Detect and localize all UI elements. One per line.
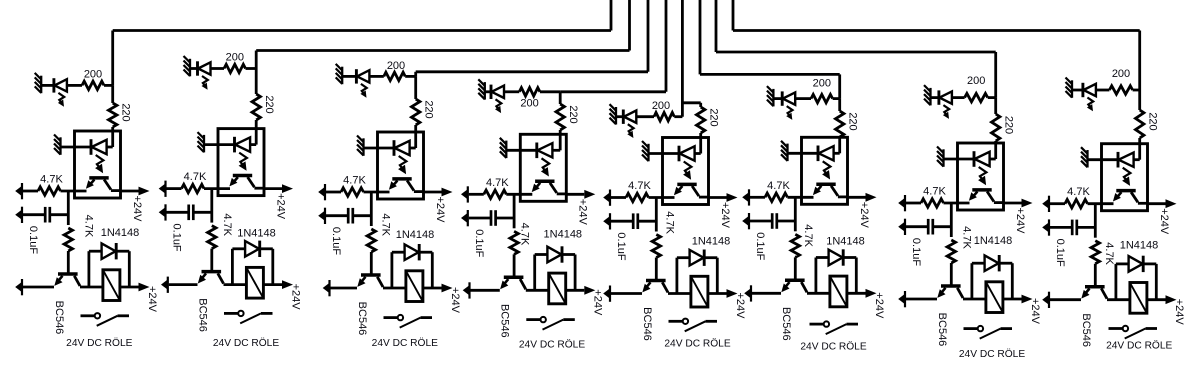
opto emitter arrow ch6 — [813, 187, 821, 196]
wire: node ch5 — [655, 198, 658, 232]
LED ch1 — [52, 78, 55, 92]
collector wire Q6 — [801, 282, 807, 292]
wire: diode loop right ch1 — [117, 250, 129, 253]
wire ch8 — [1077, 226, 1096, 229]
opto LED ch8 — [1117, 152, 1120, 168]
opto phototransistor ch2 — [233, 174, 252, 178]
relay contact switch ch8 — [1109, 327, 1123, 330]
wire: +24V ch3 row3 — [423, 287, 442, 290]
resistor 200 ch8 — [1109, 86, 1132, 94]
diode 1N4148 D6 — [829, 250, 843, 266]
+24V arrow ch6 row3 — [866, 289, 877, 298]
terminal ch5 row1 — [609, 190, 611, 206]
wire: +24V ch3 row1 — [424, 191, 442, 194]
transistor BC546 Q7 — [941, 284, 961, 288]
wire ch5 — [674, 115, 682, 118]
relay contact switch ch4 — [526, 318, 540, 321]
+24V arrow ch2 row3 — [282, 280, 293, 289]
diode 1N4148 D5 — [690, 250, 704, 266]
wire: bus drop ch8 — [1138, 31, 1141, 91]
wire ch4 — [540, 90, 560, 93]
light arrow ch3 — [361, 84, 367, 94]
relay coil K7 — [986, 282, 1003, 313]
svg-text:BC546: BC546 — [356, 302, 368, 336]
wire: bus horizontal ch8 — [733, 29, 1140, 32]
svg-text:+24V: +24V — [577, 199, 589, 226]
optocoupler U5 — [663, 138, 709, 205]
wire ch7 — [933, 225, 952, 228]
resistor 4.7K ch6 — [765, 193, 788, 201]
emitter arrow Q2 — [198, 275, 206, 284]
opto LED ch5 — [678, 146, 681, 162]
svg-text:4.7K: 4.7K — [961, 226, 973, 249]
chassis ground (opto) ch2 — [203, 135, 205, 153]
wire ch7 — [906, 298, 937, 301]
wire ch6 — [750, 220, 772, 223]
resistor 220 ch7 — [992, 114, 1000, 141]
capacitor 0.1uF ch5 — [632, 213, 635, 229]
svg-text:+24V: +24V — [1029, 298, 1041, 325]
terminal ch6 row2 — [748, 213, 750, 229]
wire: node ch6 — [794, 197, 797, 231]
wire: +24V ch2 row1 — [264, 187, 282, 190]
relay coil K2 — [246, 267, 263, 298]
opto phototransistor ch4 — [535, 179, 554, 183]
wire: bus horizontal ch6 — [700, 73, 840, 76]
wire ch3 — [326, 214, 348, 217]
wire ch6 — [773, 97, 782, 100]
resistor 4.7K base ch5 — [652, 235, 660, 258]
terminal ch5 row2 — [609, 213, 611, 229]
wire: bus stub ch4 — [665, 0, 668, 92]
wire ch4 — [559, 92, 562, 104]
relay contact switch ch1 — [81, 314, 95, 317]
wire ch4 — [559, 130, 562, 150]
resistor 4.7K ch3 — [341, 188, 364, 196]
opto emitter arrow ch7 — [969, 192, 977, 201]
wire: +24V ch6 row1 — [848, 196, 866, 199]
+24V arrow ch3 row1 — [442, 188, 453, 197]
optocoupler U4 — [520, 134, 566, 201]
opto light arrow ch6 — [823, 161, 831, 174]
wire: diode loop left ch4 — [533, 255, 536, 291]
wire ch8 — [1138, 138, 1141, 160]
terminal ch6 row1 — [748, 189, 750, 205]
opto collector wire ch2 — [248, 177, 255, 187]
opto phototransistor ch8 — [1116, 189, 1135, 193]
wire ch3 — [414, 76, 417, 99]
wire ch5 — [649, 196, 675, 199]
svg-text:4.7K: 4.7K — [221, 213, 233, 236]
opto collector wire ch6 — [831, 186, 838, 196]
svg-text:24V DC RÖLE: 24V DC RÖLE — [959, 348, 1025, 360]
wire ch4 — [471, 289, 500, 292]
terminal ch3 row1 — [324, 184, 326, 200]
wire ch2 — [169, 283, 198, 286]
emitter arrow Q8 — [1081, 290, 1089, 299]
chassis ground (LED) ch1 — [40, 76, 42, 94]
svg-text:+24V: +24V — [131, 196, 143, 223]
terminal ch7 row3 — [904, 291, 906, 307]
wire: node ch8 — [1094, 204, 1097, 238]
wire: +24V ch7 row1 — [1004, 202, 1022, 205]
LED ch2 — [196, 61, 199, 75]
optocoupler U8 — [1102, 144, 1148, 211]
svg-text:220: 220 — [708, 108, 720, 126]
resistor 4.7K ch7 — [921, 199, 944, 207]
opto collector wire ch5 — [692, 186, 699, 196]
wire: node ch1 — [67, 191, 70, 225]
light arrow ch1 — [58, 93, 64, 103]
wire ch8 — [1088, 158, 1119, 161]
wire ch3 — [370, 252, 373, 274]
+24V arrow ch2 row1 — [282, 184, 293, 193]
opto light arrow ch5 — [684, 162, 692, 175]
svg-text:+24V: +24V — [1173, 299, 1185, 326]
svg-text:1N4148: 1N4148 — [826, 235, 865, 247]
wire ch2 — [204, 187, 230, 190]
resistor 4.7K ch1 — [38, 187, 61, 195]
svg-text:4.7K: 4.7K — [343, 175, 366, 187]
wire: node ch2 — [210, 189, 213, 223]
svg-text:+24V: +24V — [449, 287, 461, 314]
LED ch8 — [1081, 83, 1084, 97]
resistor 4.7K ch4 — [484, 190, 507, 198]
resistor 4.7K base ch3 — [367, 229, 375, 252]
svg-text:4.7K: 4.7K — [767, 180, 790, 192]
svg-text:220: 220 — [263, 95, 275, 113]
wire: diode loop right ch3 — [420, 251, 432, 254]
+24V arrow ch7 row1 — [1022, 199, 1033, 208]
emitter arrow Q1 — [54, 277, 62, 286]
wire ch7 — [906, 225, 928, 228]
relay contact switch ch5 — [669, 320, 683, 323]
wire: +24V ch8 row3 — [1147, 298, 1166, 301]
optocoupler U3 — [378, 132, 424, 199]
LED ch7 — [937, 90, 940, 104]
collector wire Q8 — [1101, 289, 1107, 299]
light arrow ch6 — [787, 106, 793, 116]
wire ch8 — [1050, 226, 1072, 229]
chassis ground (LED) ch4 — [484, 82, 486, 100]
wire ch5 — [638, 220, 657, 223]
wire ch6 — [788, 196, 814, 199]
wire ch5 — [611, 196, 626, 199]
+24V arrow ch5 row1 — [727, 193, 738, 202]
svg-text:24V DC RÖLE: 24V DC RÖLE — [213, 337, 279, 349]
wire: diode loop left ch7 — [971, 263, 974, 299]
svg-text:BC546: BC546 — [1080, 313, 1092, 347]
wire ch1 — [50, 213, 69, 216]
wire ch4 — [513, 254, 516, 275]
opto LED ch7 — [973, 151, 976, 167]
svg-text:+24V: +24V — [289, 284, 301, 311]
terminal ch8 row2 — [1048, 219, 1050, 235]
chassis ground (opto) ch4 — [505, 141, 507, 159]
capacitor 0.1uF ch3 — [347, 208, 350, 224]
opto emitter arrow ch1 — [86, 180, 94, 189]
svg-text:4.7K: 4.7K — [1067, 186, 1090, 198]
wire: +24V ch1 row3 — [120, 286, 139, 289]
wire ch6 — [833, 97, 840, 100]
emitter arrow Q7 — [937, 289, 945, 298]
wire: bus stub ch3 — [647, 0, 650, 72]
wire: +24V ch1 row1 — [121, 190, 139, 193]
wire ch6 — [838, 99, 841, 111]
relay contact switch ch3 — [384, 316, 398, 319]
wire ch4 — [485, 90, 491, 93]
svg-text:24V DC RÖLE: 24V DC RÖLE — [664, 337, 730, 349]
wire ch3 — [353, 214, 372, 217]
wire ch3 — [414, 125, 417, 148]
wire: bus drop ch3 — [414, 72, 417, 77]
svg-text:220: 220 — [120, 103, 132, 121]
svg-text:+24V: +24V — [719, 202, 731, 229]
transistor BC546 Q3 — [361, 273, 381, 277]
wire: bus stub ch6 — [699, 0, 702, 74]
wire ch3 — [331, 287, 358, 290]
wire ch5 — [611, 220, 633, 223]
wire: +24V ch5 row1 — [709, 196, 727, 199]
svg-text:+24V: +24V — [146, 286, 158, 313]
terminal ch2 row1 — [164, 181, 166, 197]
collector wire Q5 — [662, 282, 668, 292]
wire ch6 — [777, 220, 796, 223]
svg-text:4.7K: 4.7K — [1103, 242, 1115, 265]
wire ch4 — [504, 90, 519, 93]
LED ch6 — [781, 91, 784, 105]
opto LED ch3 — [393, 140, 396, 156]
wire ch2 — [167, 211, 189, 214]
LED ch3 — [355, 69, 358, 83]
opto emitter arrow ch2 — [229, 178, 237, 187]
svg-text:0.1uF: 0.1uF — [473, 229, 485, 257]
opto light arrow ch3 — [399, 156, 407, 169]
wire ch5 — [655, 258, 658, 280]
wire ch8 — [1133, 89, 1140, 92]
terminal ch8 row3 — [1048, 292, 1050, 308]
wire ch1 — [61, 146, 92, 149]
terminal ch1 row3 — [21, 279, 23, 295]
svg-text:+24V: +24V — [1014, 207, 1026, 234]
svg-text:1N4148: 1N4148 — [101, 227, 140, 239]
wire ch6 — [788, 152, 819, 155]
wire ch8 — [1050, 298, 1081, 301]
terminal ch6 row3 — [750, 285, 752, 301]
wire ch7 — [944, 202, 970, 205]
collector wire Q7 — [957, 288, 963, 298]
collector wire Q2 — [218, 273, 224, 283]
wire: +24V ch5 row3 — [708, 292, 727, 295]
svg-text:4.7K: 4.7K — [40, 174, 63, 186]
opto LED ch4 — [535, 143, 538, 159]
diode 1N4148 D8 — [1129, 256, 1143, 272]
svg-text:BC546: BC546 — [641, 307, 653, 341]
wire ch1 — [67, 251, 70, 273]
svg-text:220: 220 — [423, 100, 435, 118]
svg-text:200: 200 — [813, 78, 831, 90]
svg-text:0.1uF: 0.1uF — [615, 232, 627, 260]
relay coil K5 — [691, 276, 708, 307]
opto phototransistor ch6 — [816, 182, 835, 186]
transistor BC546 Q8 — [1085, 285, 1105, 289]
wire ch1 — [23, 286, 54, 289]
svg-text:BC546: BC546 — [196, 298, 208, 332]
wire ch2 — [246, 67, 257, 70]
capacitor 0.1uF ch2 — [187, 205, 190, 221]
optocoupler U6 — [802, 137, 848, 204]
opto collector wire ch8 — [1131, 192, 1138, 202]
opto light arrow ch2 — [239, 153, 247, 166]
wire ch4 — [506, 193, 532, 196]
+24V arrow ch8 row1 — [1166, 199, 1177, 208]
wire: bus drop ch6 — [838, 74, 841, 98]
wire ch8 — [1088, 202, 1114, 205]
svg-text:4.7K: 4.7K — [923, 186, 946, 198]
LED ch4 — [490, 85, 493, 99]
svg-text:24V DC RÖLE: 24V DC RÖLE — [1106, 340, 1172, 352]
relay coil K4 — [549, 273, 566, 304]
opto phototransistor ch5 — [677, 183, 696, 187]
wire ch6 — [838, 137, 841, 153]
diode 1N4148 D3 — [405, 244, 419, 260]
capacitor 0.1uF ch8 — [1071, 220, 1074, 236]
wire ch8 — [1050, 202, 1065, 205]
svg-text:200: 200 — [226, 52, 244, 64]
emitter arrow Q4 — [500, 281, 508, 290]
chassis ground (opto) ch1 — [59, 137, 61, 155]
svg-text:+24V: +24V — [274, 193, 286, 220]
terminal ch3 row2 — [324, 208, 326, 224]
wire ch7 — [952, 96, 965, 99]
svg-text:220: 220 — [847, 112, 859, 130]
opto collector wire ch7 — [987, 192, 994, 202]
wire: node ch3 — [370, 192, 373, 226]
collector wire Q1 — [74, 276, 80, 286]
wire: bus horizontal ch1 — [113, 29, 611, 32]
wire: diode loop right ch4 — [563, 253, 575, 256]
wire: diode loop right ch2 — [261, 247, 273, 250]
wire ch7 — [994, 98, 997, 114]
opto emitter arrow ch5 — [674, 187, 682, 196]
relay contact switch ch7 — [964, 327, 978, 330]
wire ch4 — [496, 217, 514, 220]
svg-text:4.7K: 4.7K — [663, 211, 675, 234]
resistor 4.7K base ch8 — [1091, 241, 1099, 264]
wire ch1 — [41, 84, 54, 87]
wire ch6 — [750, 196, 765, 199]
wire ch7 — [944, 158, 975, 161]
wire ch3 — [364, 191, 390, 194]
light arrow ch4 — [496, 99, 502, 109]
terminal ch7 row1 — [904, 195, 906, 211]
wire ch7 — [906, 202, 921, 205]
wire: bus horizontal ch3 — [416, 70, 648, 73]
relay contact switch ch6 — [810, 323, 824, 326]
svg-text:1N4148: 1N4148 — [974, 235, 1013, 247]
emitter arrow Q6 — [781, 284, 789, 293]
svg-text:+24V: +24V — [1158, 208, 1170, 235]
diode 1N4148 D1 — [102, 243, 116, 259]
diode 1N4148 D2 — [245, 241, 259, 257]
wire ch3 — [342, 75, 356, 78]
svg-text:1N4148: 1N4148 — [237, 228, 276, 240]
wire ch5 — [649, 152, 680, 155]
opto LED ch2 — [233, 137, 236, 153]
svg-text:24V DC RÖLE: 24V DC RÖLE — [66, 337, 132, 349]
svg-text:4.7K: 4.7K — [519, 223, 531, 246]
terminal ch2 row2 — [164, 204, 166, 220]
+24V arrow ch4 row3 — [584, 286, 595, 295]
chassis ground (LED) ch8 — [1071, 80, 1073, 98]
opto light arrow ch7 — [979, 167, 987, 180]
wire ch5 — [636, 115, 654, 118]
chassis ground (LED) ch3 — [341, 67, 343, 85]
wire: diode loop left ch2 — [231, 249, 234, 285]
resistor 200 ch2 — [224, 64, 246, 72]
svg-text:+24V: +24V — [858, 202, 870, 229]
resistor 200 ch6 — [811, 94, 833, 102]
svg-text:0.1uF: 0.1uF — [910, 238, 922, 266]
wire ch1 — [23, 190, 38, 193]
resistor 220 ch5 — [697, 107, 705, 133]
svg-text:+24V: +24V — [434, 197, 446, 224]
terminal ch4 row2 — [467, 210, 469, 226]
svg-text:200: 200 — [1112, 68, 1130, 80]
wire: diode loop right ch6 — [844, 256, 856, 259]
wire ch8 — [1138, 90, 1141, 110]
svg-text:0.1uF: 0.1uF — [27, 226, 39, 254]
transistor BC546 Q4 — [504, 276, 524, 280]
wire: +24V ch6 row3 — [847, 292, 866, 295]
relay coil K1 — [103, 270, 120, 301]
optocoupler U2 — [218, 129, 264, 196]
wire ch8 — [1072, 89, 1083, 92]
wire: bus horizontal ch7 — [716, 51, 996, 54]
resistor 220 ch1 — [109, 103, 117, 127]
svg-text:220: 220 — [567, 105, 579, 123]
wire ch1 — [61, 190, 87, 193]
wire ch2 — [211, 67, 225, 70]
wire ch2 — [193, 211, 212, 214]
svg-text:200: 200 — [967, 75, 985, 87]
relay coil K6 — [830, 276, 847, 307]
wire ch6 — [795, 97, 811, 100]
wire ch2 — [167, 187, 182, 190]
wire: +24V ch7 row3 — [1003, 298, 1022, 301]
resistor 200 ch3 — [384, 72, 405, 80]
wire ch3 — [369, 75, 383, 78]
wire ch2 — [255, 120, 258, 145]
wire: bus drop ch7 — [994, 52, 997, 98]
optocoupler U7 — [958, 143, 1004, 210]
svg-text:+24V: +24V — [592, 289, 604, 316]
wire: bus stub ch7 — [715, 0, 718, 52]
svg-text:200: 200 — [520, 97, 538, 109]
svg-text:220: 220 — [1147, 112, 1159, 130]
collector wire Q4 — [520, 279, 526, 289]
opto phototransistor ch3 — [392, 177, 411, 181]
wire: diode loop right ch5 — [705, 256, 717, 259]
wire ch2 — [190, 67, 198, 70]
wire ch4 — [469, 193, 484, 196]
wire ch4 — [469, 217, 491, 220]
optocoupler U1 — [75, 131, 121, 198]
chassis ground (LED) ch2 — [189, 59, 191, 77]
resistor 200 ch4 — [519, 88, 540, 96]
wire ch1 — [104, 84, 113, 87]
resistor 4.7K base ch4 — [510, 231, 518, 254]
